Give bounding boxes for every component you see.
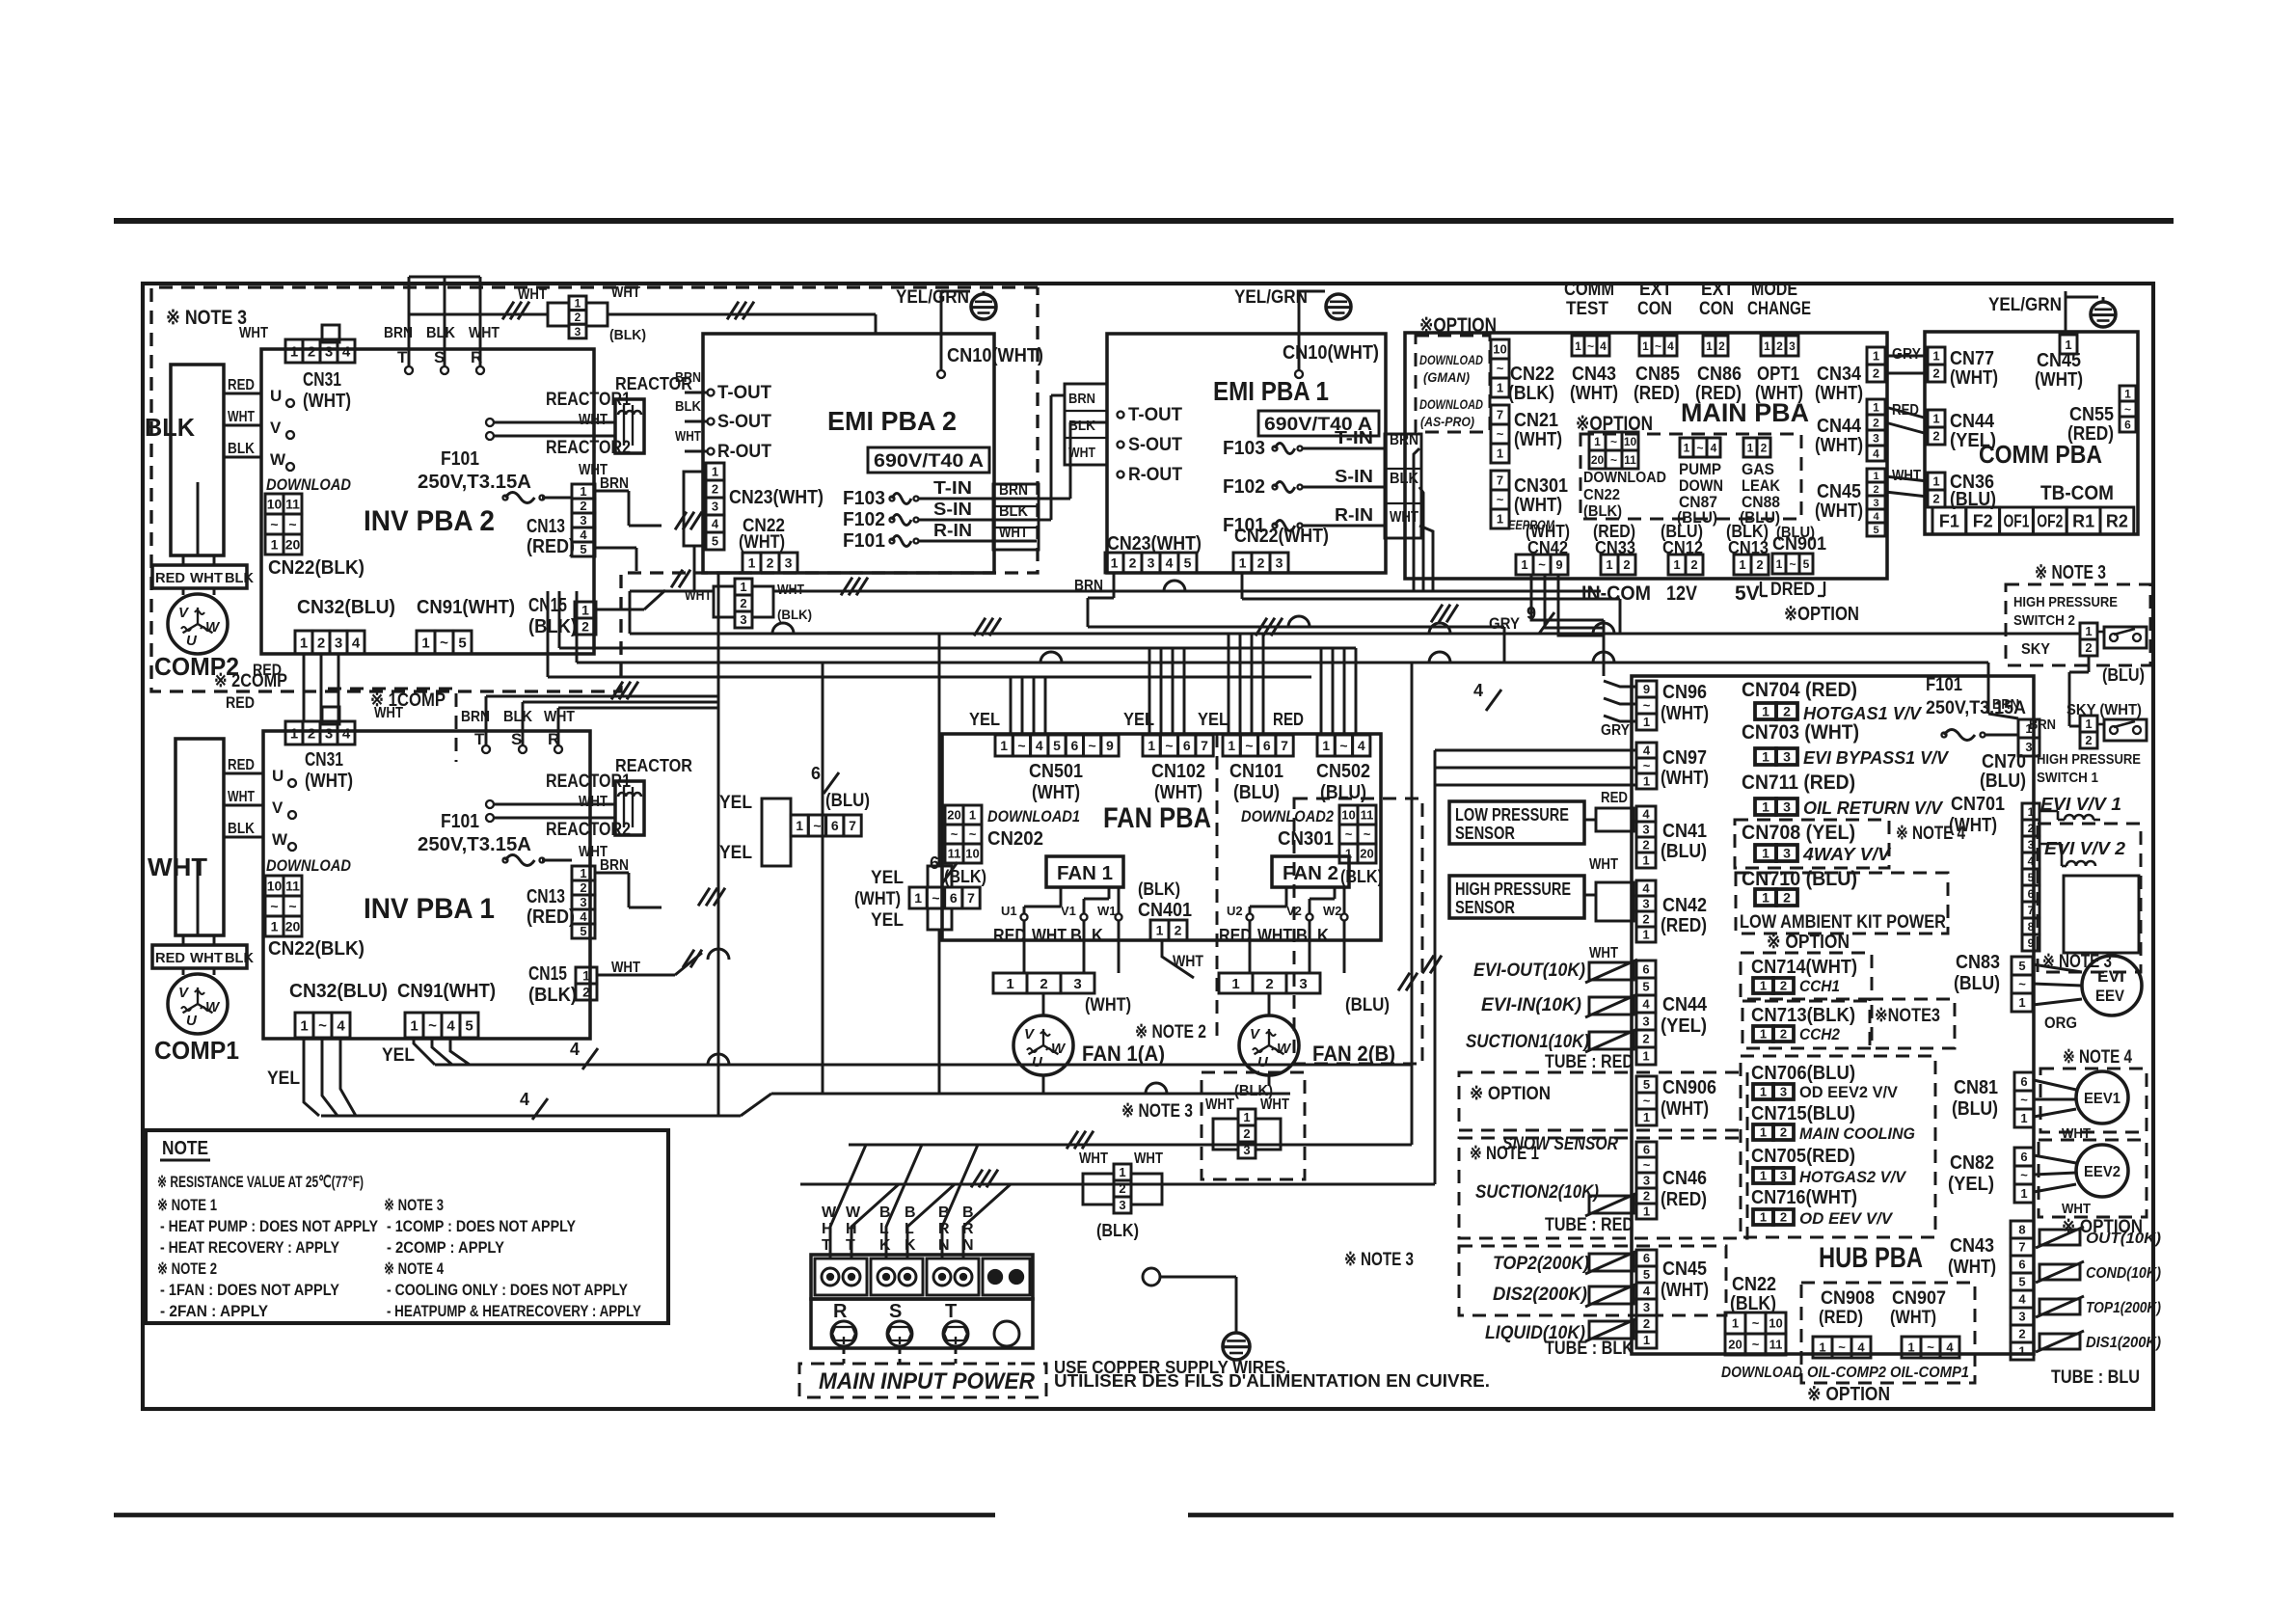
svg-text:3: 3 bbox=[1243, 1143, 1250, 1157]
svg-text:7: 7 bbox=[2018, 1240, 2025, 1255]
svg-text:(BLK): (BLK) bbox=[528, 616, 577, 637]
svg-text:FAN 1(A): FAN 1(A) bbox=[1082, 1042, 1165, 1066]
svg-text:1: 1 bbox=[748, 555, 756, 571]
svg-text:CN22: CN22 bbox=[1510, 364, 1554, 385]
svg-text:S-IN: S-IN bbox=[933, 500, 972, 519]
svg-text:COMP1: COMP1 bbox=[154, 1036, 239, 1065]
svg-text:REACTOR2: REACTOR2 bbox=[546, 820, 631, 840]
svg-text:1: 1 bbox=[421, 635, 429, 651]
svg-text:2: 2 bbox=[1642, 838, 1649, 853]
svg-text:5: 5 bbox=[1643, 1267, 1650, 1282]
svg-text:CN44: CN44 bbox=[1950, 411, 1995, 432]
svg-text:(GMAN): (GMAN) bbox=[1423, 369, 1470, 385]
svg-text:WHT: WHT bbox=[1032, 926, 1067, 945]
svg-text:1: 1 bbox=[1643, 1333, 1650, 1347]
svg-text:BLK: BLK bbox=[675, 398, 701, 415]
svg-text:CON: CON bbox=[1699, 299, 1734, 319]
svg-text:F103: F103 bbox=[843, 488, 885, 509]
svg-text:~: ~ bbox=[1789, 557, 1796, 571]
svg-text:CN91(WHT): CN91(WHT) bbox=[417, 597, 515, 618]
svg-text:1: 1 bbox=[1932, 412, 1939, 426]
svg-text:YEL: YEL bbox=[719, 793, 752, 813]
svg-text:~: ~ bbox=[428, 1017, 437, 1034]
svg-text:3: 3 bbox=[1119, 1198, 1125, 1212]
svg-text:1: 1 bbox=[2028, 805, 2035, 819]
svg-text:(BLK): (BLK) bbox=[1234, 1083, 1273, 1099]
svg-text:RED: RED bbox=[155, 950, 185, 966]
svg-text:1: 1 bbox=[1873, 349, 1879, 364]
svg-text:CN301: CN301 bbox=[1278, 828, 1334, 850]
svg-text:HOTGAS2 V/V: HOTGAS2 V/V bbox=[1799, 1168, 1907, 1186]
svg-text:S: S bbox=[889, 1301, 902, 1322]
svg-text:7: 7 bbox=[967, 890, 975, 906]
svg-text:3: 3 bbox=[1783, 749, 1791, 765]
svg-text:(BLK): (BLK) bbox=[1340, 867, 1383, 886]
svg-text:6: 6 bbox=[1642, 962, 1649, 977]
svg-text:HIGH PRESSURE: HIGH PRESSURE bbox=[2013, 594, 2118, 610]
svg-text:1: 1 bbox=[1594, 435, 1601, 448]
svg-text:10: 10 bbox=[1341, 808, 1355, 823]
svg-text:MAIN COOLING: MAIN COOLING bbox=[1799, 1124, 1915, 1143]
svg-text:T-IN: T-IN bbox=[933, 478, 972, 498]
svg-text:2: 2 bbox=[582, 985, 590, 1000]
svg-text:1: 1 bbox=[1119, 1165, 1125, 1179]
svg-text:~: ~ bbox=[1339, 738, 1347, 753]
svg-text:CN96: CN96 bbox=[1662, 682, 1707, 703]
svg-text:CN44: CN44 bbox=[1662, 994, 1708, 1015]
svg-text:~: ~ bbox=[1752, 1338, 1760, 1352]
svg-text:WHT: WHT bbox=[148, 853, 207, 881]
svg-text:5: 5 bbox=[1873, 525, 1878, 536]
svg-text:CN102: CN102 bbox=[1151, 761, 1205, 782]
svg-text:4: 4 bbox=[1036, 738, 1043, 753]
svg-text:U: U bbox=[270, 387, 282, 405]
svg-text:4: 4 bbox=[337, 1017, 345, 1034]
svg-text:4: 4 bbox=[1873, 447, 1879, 460]
svg-text:SENSOR: SENSOR bbox=[1455, 824, 1515, 843]
svg-text:DOWNLOAD: DOWNLOAD bbox=[266, 475, 351, 494]
svg-text:LOW PRESSURE: LOW PRESSURE bbox=[1455, 805, 1569, 825]
svg-text:3: 3 bbox=[785, 555, 793, 571]
svg-text:7: 7 bbox=[1201, 738, 1208, 753]
svg-text:(WHT): (WHT) bbox=[1514, 495, 1562, 516]
svg-text:~: ~ bbox=[1245, 738, 1253, 753]
svg-text:- HEATPUMP & HEATRECOVERY : AP: - HEATPUMP & HEATRECOVERY : APPLY bbox=[387, 1302, 642, 1320]
svg-text:1: 1 bbox=[914, 890, 922, 906]
svg-text:3: 3 bbox=[1642, 897, 1649, 911]
svg-text:4: 4 bbox=[1358, 738, 1365, 753]
svg-text:~: ~ bbox=[440, 635, 448, 651]
svg-text:BRN: BRN bbox=[1074, 578, 1103, 594]
svg-text:1: 1 bbox=[1762, 890, 1769, 906]
svg-text:BLK: BLK bbox=[1296, 926, 1329, 945]
svg-text:EVI V/V 2: EVI V/V 2 bbox=[2044, 839, 2125, 858]
svg-text:11: 11 bbox=[948, 847, 961, 861]
svg-text:(WHT): (WHT) bbox=[739, 532, 785, 553]
svg-text:(BLK): (BLK) bbox=[609, 327, 646, 343]
svg-text:1: 1 bbox=[575, 297, 581, 311]
svg-text:R-OUT: R-OUT bbox=[1128, 465, 1182, 485]
svg-text:DRED: DRED bbox=[1770, 580, 1815, 600]
svg-text:(WHT): (WHT) bbox=[1514, 429, 1562, 450]
svg-text:6: 6 bbox=[811, 764, 821, 783]
svg-text:1: 1 bbox=[1932, 349, 1939, 364]
svg-text:CCH2: CCH2 bbox=[1799, 1025, 1840, 1043]
svg-text:YEL/GRN: YEL/GRN bbox=[896, 287, 969, 308]
svg-text:(RED): (RED) bbox=[527, 536, 575, 557]
svg-text:CN202: CN202 bbox=[987, 828, 1043, 850]
svg-text:W: W bbox=[1051, 1041, 1067, 1057]
svg-text:U: U bbox=[272, 767, 284, 785]
svg-text:WHT: WHT bbox=[239, 325, 268, 341]
svg-text:3: 3 bbox=[1276, 555, 1283, 571]
svg-text:U: U bbox=[186, 633, 198, 649]
svg-text:6: 6 bbox=[2028, 887, 2035, 901]
svg-text:FAN 2(B): FAN 2(B) bbox=[1312, 1042, 1395, 1066]
svg-text:1: 1 bbox=[1873, 400, 1879, 414]
svg-text:6: 6 bbox=[1643, 1143, 1650, 1157]
svg-text:CN908: CN908 bbox=[1821, 1288, 1875, 1309]
svg-text:2: 2 bbox=[308, 725, 315, 742]
svg-text:BRN: BRN bbox=[675, 369, 701, 386]
svg-text:1: 1 bbox=[1642, 1049, 1649, 1064]
svg-text:2: 2 bbox=[1129, 555, 1137, 571]
svg-text:BLK: BLK bbox=[503, 709, 532, 725]
svg-text:CN23(WHT): CN23(WHT) bbox=[729, 487, 824, 508]
svg-text:(WHT): (WHT) bbox=[1815, 501, 1863, 522]
svg-text:3: 3 bbox=[1643, 1174, 1650, 1188]
svg-text:1: 1 bbox=[2020, 1111, 2027, 1125]
svg-text:2: 2 bbox=[1119, 1181, 1125, 1196]
svg-text:GRY: GRY bbox=[1892, 346, 1921, 363]
svg-text:CN44: CN44 bbox=[1817, 416, 1862, 437]
svg-text:4: 4 bbox=[1642, 807, 1650, 822]
svg-text:2: 2 bbox=[1265, 976, 1273, 992]
svg-text:1: 1 bbox=[1521, 557, 1527, 572]
svg-text:1: 1 bbox=[2065, 338, 2071, 352]
svg-text:~: ~ bbox=[1643, 698, 1651, 713]
svg-text:(BLK): (BLK) bbox=[1583, 503, 1622, 520]
svg-text:12V: 12V bbox=[1666, 582, 1697, 605]
svg-text:4: 4 bbox=[1473, 681, 1483, 700]
svg-text:CN715(BLU): CN715(BLU) bbox=[1751, 1103, 1855, 1124]
svg-text:1: 1 bbox=[1760, 1125, 1767, 1140]
svg-text:7: 7 bbox=[1281, 738, 1288, 753]
svg-text:4: 4 bbox=[1711, 441, 1717, 454]
svg-text:~: ~ bbox=[1364, 827, 1371, 842]
svg-text:T-OUT: T-OUT bbox=[1128, 405, 1182, 425]
svg-text:1: 1 bbox=[1322, 738, 1330, 753]
svg-text:~: ~ bbox=[2124, 402, 2131, 416]
svg-text:HIGH PRESSURE: HIGH PRESSURE bbox=[1455, 880, 1571, 899]
svg-text:(WHT): (WHT) bbox=[1032, 782, 1080, 803]
svg-text:~: ~ bbox=[1538, 557, 1546, 572]
svg-text:※ NOTE 2: ※ NOTE 2 bbox=[1135, 1022, 1206, 1042]
svg-text:1: 1 bbox=[1907, 1340, 1914, 1355]
svg-text:CCH1: CCH1 bbox=[1799, 977, 1840, 995]
svg-text:V1: V1 bbox=[1061, 904, 1076, 918]
svg-text:- HEAT RECOVERY : APPLY: - HEAT RECOVERY : APPLY bbox=[160, 1238, 340, 1257]
svg-text:BLK: BLK bbox=[145, 413, 195, 442]
svg-text:2: 2 bbox=[1776, 339, 1783, 353]
svg-text:※ NOTE 3: ※ NOTE 3 bbox=[1344, 1250, 1414, 1270]
svg-text:DOWNLOAD: DOWNLOAD bbox=[1419, 352, 1483, 367]
svg-text:2: 2 bbox=[1690, 557, 1697, 572]
svg-text:(RED): (RED) bbox=[1695, 383, 1742, 404]
svg-text:(BLU): (BLU) bbox=[1661, 841, 1707, 862]
svg-text:1: 1 bbox=[1156, 923, 1164, 938]
svg-text:CN86: CN86 bbox=[1697, 364, 1742, 385]
svg-text:6: 6 bbox=[930, 853, 939, 873]
svg-text:EEV2: EEV2 bbox=[2084, 1164, 2120, 1180]
svg-text:CN502: CN502 bbox=[1316, 761, 1370, 782]
svg-text:3: 3 bbox=[580, 895, 586, 909]
svg-text:1: 1 bbox=[580, 866, 586, 880]
svg-text:EXT: EXT bbox=[1639, 280, 1672, 300]
svg-text:2: 2 bbox=[308, 343, 315, 360]
svg-text:1: 1 bbox=[1243, 1110, 1250, 1124]
svg-text:F2: F2 bbox=[1973, 511, 1993, 530]
svg-text:OIL-COMP1: OIL-COMP1 bbox=[1890, 1365, 1969, 1381]
svg-text:※ NOTE 3: ※ NOTE 3 bbox=[1121, 1101, 1193, 1122]
svg-text:10: 10 bbox=[1769, 1316, 1782, 1331]
svg-text:R-IN: R-IN bbox=[1335, 505, 1373, 525]
svg-text:5: 5 bbox=[1803, 557, 1810, 571]
svg-text:3: 3 bbox=[1780, 1085, 1787, 1099]
svg-text:2: 2 bbox=[1643, 1189, 1650, 1204]
svg-text:LOW AMBIENT KIT POWER: LOW AMBIENT KIT POWER bbox=[1740, 912, 1946, 933]
svg-text:4: 4 bbox=[570, 1040, 580, 1059]
svg-text:20: 20 bbox=[1360, 847, 1373, 861]
svg-text:EVI-OUT(10K): EVI-OUT(10K) bbox=[1473, 961, 1585, 981]
svg-text:T: T bbox=[945, 1301, 957, 1322]
svg-text:1: 1 bbox=[1231, 976, 1239, 992]
svg-text:CN13: CN13 bbox=[527, 516, 565, 537]
svg-text:YEL: YEL bbox=[382, 1045, 415, 1066]
svg-text:OF2: OF2 bbox=[2037, 511, 2063, 530]
svg-text:250V,T3.15A: 250V,T3.15A bbox=[418, 834, 531, 855]
svg-text:1: 1 bbox=[2124, 387, 2131, 400]
svg-text:4: 4 bbox=[1642, 997, 1650, 1012]
svg-text:4: 4 bbox=[1600, 339, 1607, 353]
svg-text:S-IN: S-IN bbox=[1335, 467, 1373, 486]
svg-text:(WHT): (WHT) bbox=[305, 771, 353, 792]
svg-text:※ NOTE 2: ※ NOTE 2 bbox=[157, 1259, 217, 1278]
svg-text:W: W bbox=[270, 450, 286, 469]
svg-text:WHT: WHT bbox=[228, 409, 255, 425]
svg-text:~: ~ bbox=[1696, 441, 1703, 454]
svg-text:2: 2 bbox=[2018, 1327, 2025, 1341]
svg-text:1: 1 bbox=[1747, 441, 1754, 454]
svg-text:3: 3 bbox=[1642, 823, 1649, 837]
svg-text:TUBE : RED: TUBE : RED bbox=[1545, 1052, 1634, 1072]
svg-text:UTILISER DES FILS D'ALIMENTATI: UTILISER DES FILS D'ALIMENTATION EN CUIV… bbox=[1054, 1371, 1490, 1391]
svg-text:CN46: CN46 bbox=[1662, 1168, 1707, 1189]
svg-text:SENSOR: SENSOR bbox=[1455, 898, 1515, 917]
svg-text:2: 2 bbox=[580, 880, 586, 895]
svg-text:1: 1 bbox=[1148, 738, 1155, 753]
svg-text:(WHT): (WHT) bbox=[1570, 383, 1618, 404]
svg-text:INV PBA 1: INV PBA 1 bbox=[364, 893, 495, 925]
svg-text:YEL/GRN: YEL/GRN bbox=[1234, 287, 1308, 308]
svg-text:CN716(WHT): CN716(WHT) bbox=[1751, 1187, 1857, 1208]
svg-text:~: ~ bbox=[1610, 435, 1617, 448]
svg-text:5: 5 bbox=[580, 542, 586, 556]
svg-text:RED: RED bbox=[155, 570, 185, 586]
svg-text:TUBE : BLK: TUBE : BLK bbox=[1545, 1339, 1634, 1359]
svg-text:~: ~ bbox=[318, 1017, 327, 1034]
svg-text:FAN 2: FAN 2 bbox=[1283, 863, 1338, 884]
svg-text:3: 3 bbox=[1873, 431, 1879, 445]
svg-text:F102: F102 bbox=[1223, 476, 1265, 498]
svg-text:~: ~ bbox=[270, 899, 278, 914]
svg-text:3: 3 bbox=[2028, 838, 2035, 852]
svg-text:(WHT): (WHT) bbox=[1661, 1098, 1709, 1120]
svg-text:6: 6 bbox=[1263, 738, 1271, 753]
svg-text:~: ~ bbox=[1838, 1340, 1846, 1355]
svg-text:CN101: CN101 bbox=[1229, 761, 1283, 782]
svg-text:CN22: CN22 bbox=[1583, 487, 1620, 503]
svg-text:2: 2 bbox=[2028, 822, 2035, 835]
svg-text:TUBE : RED: TUBE : RED bbox=[1545, 1215, 1634, 1235]
svg-text:FAN PBA: FAN PBA bbox=[1103, 802, 1211, 834]
svg-text:(WHT): (WHT) bbox=[1950, 367, 1998, 389]
svg-text:1: 1 bbox=[271, 919, 279, 934]
svg-text:8: 8 bbox=[2028, 920, 2035, 934]
svg-text:~: ~ bbox=[1497, 493, 1504, 507]
svg-text:2: 2 bbox=[317, 635, 325, 651]
svg-text:~: ~ bbox=[1497, 362, 1504, 376]
svg-text:5V: 5V bbox=[1735, 582, 1760, 605]
svg-text:(YEL): (YEL) bbox=[1661, 1015, 1707, 1037]
svg-text:B: B bbox=[905, 1204, 916, 1221]
svg-text:(BLK): (BLK) bbox=[1138, 880, 1180, 899]
svg-text:GRY: GRY bbox=[1601, 722, 1630, 739]
svg-text:10: 10 bbox=[267, 497, 283, 512]
svg-text:MAIN INPUT POWER: MAIN INPUT POWER bbox=[819, 1368, 1036, 1394]
svg-text:EXT: EXT bbox=[1701, 280, 1734, 300]
svg-text:(RED): (RED) bbox=[1661, 915, 1707, 936]
svg-text:INV PBA 2: INV PBA 2 bbox=[364, 505, 495, 537]
svg-text:11: 11 bbox=[1769, 1338, 1783, 1352]
svg-text:DOWNLOAD: DOWNLOAD bbox=[1419, 396, 1483, 412]
svg-text:~: ~ bbox=[288, 899, 296, 914]
svg-text:3: 3 bbox=[580, 513, 586, 528]
svg-text:OD EEV V/V: OD EEV V/V bbox=[1799, 1209, 1894, 1228]
svg-text:F102: F102 bbox=[843, 509, 885, 530]
svg-text:1: 1 bbox=[1497, 381, 1503, 395]
svg-text:HIGH PRESSURE: HIGH PRESSURE bbox=[2037, 751, 2141, 768]
svg-text:10: 10 bbox=[1493, 342, 1506, 357]
svg-text:3: 3 bbox=[2025, 740, 2032, 754]
svg-text:5: 5 bbox=[458, 635, 466, 651]
svg-text:SUCTION2(10K): SUCTION2(10K) bbox=[1475, 1182, 1599, 1203]
svg-text:~: ~ bbox=[1345, 827, 1353, 842]
svg-text:10: 10 bbox=[267, 879, 283, 894]
svg-text:~: ~ bbox=[932, 890, 939, 906]
svg-text:(YEL): (YEL) bbox=[1948, 1174, 1994, 1195]
svg-text:~: ~ bbox=[1497, 427, 1504, 442]
svg-text:CN22(WHT): CN22(WHT) bbox=[1234, 526, 1329, 547]
svg-text:CN91(WHT): CN91(WHT) bbox=[397, 981, 496, 1002]
svg-text:4: 4 bbox=[2028, 854, 2035, 868]
svg-text:(WHT): (WHT) bbox=[1661, 703, 1709, 724]
svg-text:9: 9 bbox=[2028, 936, 2035, 950]
svg-text:4: 4 bbox=[1857, 1340, 1865, 1355]
svg-text:3: 3 bbox=[1783, 799, 1791, 815]
svg-text:RED: RED bbox=[1219, 926, 1252, 945]
svg-text:SWITCH 1: SWITCH 1 bbox=[2037, 770, 2098, 786]
svg-text:CN45: CN45 bbox=[1662, 1259, 1707, 1280]
svg-text:(BLU): (BLU) bbox=[1776, 525, 1815, 541]
svg-text:EMI PBA 1: EMI PBA 1 bbox=[1213, 376, 1329, 406]
svg-text:WHT: WHT bbox=[1068, 445, 1095, 461]
svg-text:TUBE : BLU: TUBE : BLU bbox=[2051, 1367, 2140, 1388]
svg-text:1: 1 bbox=[1819, 1340, 1825, 1355]
svg-text:6: 6 bbox=[1643, 1251, 1650, 1265]
svg-text:2: 2 bbox=[1780, 979, 1787, 993]
svg-text:2: 2 bbox=[1873, 484, 1878, 496]
svg-text:1: 1 bbox=[1762, 749, 1769, 765]
svg-text:2: 2 bbox=[740, 596, 746, 610]
svg-text:~: ~ bbox=[969, 827, 977, 842]
svg-text:1: 1 bbox=[1642, 928, 1649, 942]
svg-text:OPT1: OPT1 bbox=[1757, 364, 1799, 385]
svg-text:CN22(BLK): CN22(BLK) bbox=[268, 938, 365, 960]
svg-text:COND(10K): COND(10K) bbox=[2086, 1265, 2161, 1282]
svg-text:EVI: EVI bbox=[2097, 967, 2124, 986]
svg-text:(RED): (RED) bbox=[1634, 383, 1680, 404]
svg-text:※ 1COMP: ※ 1COMP bbox=[370, 690, 446, 711]
svg-text:IN-COM: IN-COM bbox=[1581, 582, 1651, 605]
svg-text:6: 6 bbox=[831, 818, 839, 833]
svg-text:3: 3 bbox=[325, 725, 333, 742]
svg-text:※ NOTE 1: ※ NOTE 1 bbox=[157, 1196, 217, 1214]
svg-text:BLK: BLK bbox=[225, 950, 254, 966]
svg-text:1: 1 bbox=[969, 808, 976, 823]
svg-text:4WAY V/V: 4WAY V/V bbox=[1802, 845, 1892, 864]
svg-text:10: 10 bbox=[1624, 435, 1637, 448]
svg-text:(WHT): (WHT) bbox=[1085, 995, 1131, 1015]
svg-text:3: 3 bbox=[1783, 846, 1791, 861]
svg-text:CN10(WHT): CN10(WHT) bbox=[947, 345, 1043, 366]
svg-text:1: 1 bbox=[300, 635, 308, 651]
svg-text:1: 1 bbox=[1776, 557, 1783, 571]
svg-text:- 1FAN : DOES NOT APPLY: - 1FAN : DOES NOT APPLY bbox=[160, 1281, 340, 1299]
svg-text:HUB PBA: HUB PBA bbox=[1819, 1242, 1923, 1274]
svg-text:11: 11 bbox=[285, 497, 300, 512]
svg-text:~: ~ bbox=[2018, 977, 2026, 991]
svg-text:9: 9 bbox=[1643, 682, 1650, 696]
svg-text:8: 8 bbox=[2018, 1223, 2025, 1237]
svg-text:9: 9 bbox=[1106, 738, 1114, 753]
svg-text:1: 1 bbox=[1760, 979, 1767, 993]
svg-text:EMI PBA 2: EMI PBA 2 bbox=[827, 406, 957, 436]
svg-text:~: ~ bbox=[813, 818, 821, 833]
svg-text:- 2FAN : APPLY: - 2FAN : APPLY bbox=[160, 1302, 269, 1320]
svg-text:V: V bbox=[272, 798, 284, 817]
svg-text:(WHT): (WHT) bbox=[854, 889, 901, 909]
svg-text:~: ~ bbox=[270, 517, 278, 532]
svg-text:1: 1 bbox=[1643, 774, 1650, 789]
svg-text:1: 1 bbox=[1111, 555, 1119, 571]
svg-text:CN301: CN301 bbox=[1514, 475, 1568, 497]
svg-text:~: ~ bbox=[288, 517, 296, 532]
svg-text:1: 1 bbox=[271, 537, 279, 553]
svg-text:T: T bbox=[397, 348, 408, 366]
svg-text:YEL: YEL bbox=[719, 843, 752, 863]
svg-text:F101: F101 bbox=[843, 530, 885, 552]
